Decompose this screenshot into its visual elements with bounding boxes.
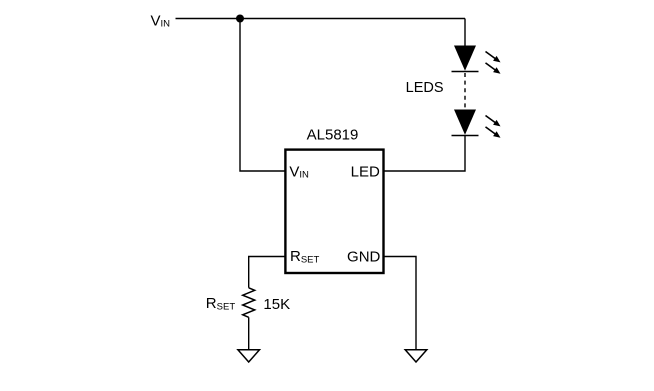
svg-text:15K: 15K [263, 296, 290, 313]
svg-text:RSET: RSET [206, 295, 236, 312]
svg-text:LEDS: LEDS [406, 80, 444, 96]
svg-text:LED: LED [351, 164, 380, 181]
svg-text:RSET: RSET [290, 248, 320, 265]
svg-text:AL5819: AL5819 [307, 126, 359, 143]
svg-text:VIN: VIN [289, 164, 309, 181]
svg-text:GND: GND [347, 248, 381, 265]
svg-text:VIN: VIN [151, 12, 171, 29]
